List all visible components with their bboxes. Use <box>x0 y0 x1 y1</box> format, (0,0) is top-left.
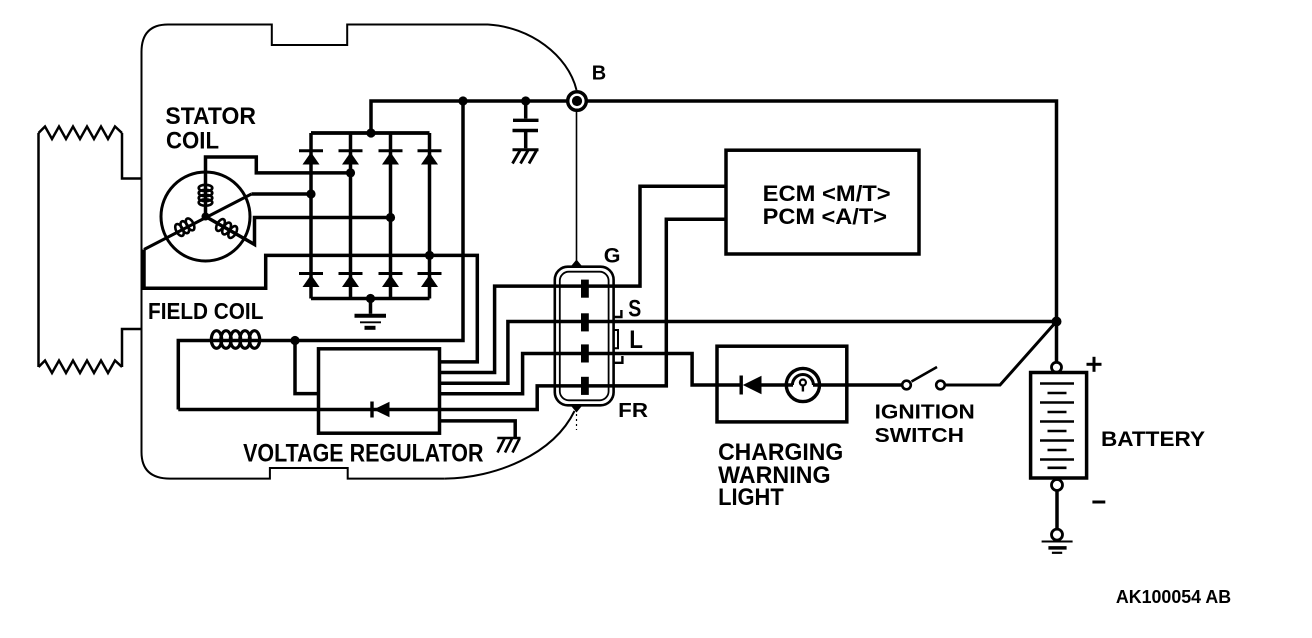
stator neutral wire to column 4 <box>144 250 477 362</box>
rectifier column 2 <box>349 133 353 299</box>
voltage regulator box <box>319 349 440 433</box>
belt bottom zigzag <box>39 361 123 374</box>
diode D7 bottom <box>379 274 403 288</box>
regulator diode <box>372 402 390 418</box>
svg-text:STATOR: STATOR <box>165 103 256 130</box>
ground circle <box>1052 529 1063 540</box>
main B+ wire from rectifier top to top-right corner down to battery <box>371 101 1057 363</box>
field supply wire from B+ down and left to regulator loop <box>178 101 463 410</box>
stator phase wire 2 (diagonal to column 1) <box>251 192 311 196</box>
lamp bulb <box>786 368 819 401</box>
wire diode to lamp <box>762 383 794 387</box>
stator coil circle <box>161 172 250 261</box>
battery terminal circle top <box>1052 362 1062 372</box>
junction dot field tap <box>290 336 299 345</box>
junction dot neutral col4 <box>425 251 434 260</box>
svg-text:L: L <box>629 326 643 354</box>
alternator case outline <box>142 25 577 479</box>
capacitor C1 <box>513 101 539 148</box>
svg-text:G: G <box>604 244 621 268</box>
junction dot rectifier top <box>366 128 375 137</box>
stator phase wire 1 (top branch to column 2) <box>206 157 351 217</box>
diode D1 top <box>299 151 323 165</box>
svg-text:COIL: COIL <box>166 128 219 155</box>
warning light diode <box>741 376 761 395</box>
stator diagonal (neutral tap through center) <box>144 194 251 250</box>
stator center node <box>202 213 210 221</box>
B terminal <box>568 92 587 111</box>
connector pin FR <box>581 377 589 395</box>
svg-text:IGNITION: IGNITION <box>875 401 975 423</box>
dotted case remnant below connector <box>576 414 578 430</box>
diode D8 bottom <box>418 274 442 288</box>
rectifier column 1 <box>309 133 313 299</box>
connector pin G <box>581 280 589 298</box>
junction dot phase3 col3 <box>386 213 395 222</box>
connector latch tab upper <box>614 310 622 317</box>
svg-text:ECM <M/T>: ECM <M/T> <box>763 181 891 206</box>
regulator ground hatch <box>497 438 520 453</box>
wire L: regulator to connector pin3 to warning light <box>440 354 742 394</box>
svg-text:B: B <box>592 62 606 84</box>
svg-text:FR: FR <box>618 400 648 422</box>
battery minus sign <box>1092 501 1105 504</box>
connector pin S <box>581 313 589 331</box>
rectifier column 4 <box>428 133 432 299</box>
svg-text:LIGHT: LIGHT <box>718 484 784 511</box>
case tip triangle bottom of connector <box>571 405 583 412</box>
wire field tap to regulator top <box>295 341 319 394</box>
diode D5 bottom <box>299 274 323 288</box>
junction dot rectifier ground <box>366 294 375 303</box>
rectifier ground <box>355 299 387 328</box>
wire lamp to switch <box>813 383 902 387</box>
stator winding coil on lower-left branch <box>173 217 196 237</box>
wire S: regulator to connector pin2 to battery node <box>440 322 1057 384</box>
stator phase wire 3 (lower-right branch to column 3) <box>206 217 391 245</box>
svg-text:S: S <box>628 296 641 323</box>
svg-text:SWITCH: SWITCH <box>875 425 964 447</box>
battery terminal circle bottom <box>1052 480 1063 491</box>
ignition switch <box>902 367 945 389</box>
svg-text:BATTERY: BATTERY <box>1101 428 1205 451</box>
stator winding coil on lower-right branch <box>214 218 239 240</box>
diode D3 top <box>379 151 403 165</box>
regulator diode line through box to FR and ECM <box>178 219 726 409</box>
junction dot phase1 col2 <box>346 168 355 177</box>
case tip triangle top of connector <box>571 260 583 267</box>
rectifier bottom bus <box>311 297 430 301</box>
diode D6 bottom <box>339 274 363 288</box>
diode D2 top <box>339 151 363 165</box>
junction dot B+ x463 <box>458 96 467 105</box>
wire G: regulator to connector pin1 to ECM <box>440 186 727 372</box>
connector latch tab lower <box>614 356 623 363</box>
junction dot capacitor tap <box>521 96 530 105</box>
svg-text:PCM <A/T>: PCM <A/T> <box>763 204 887 229</box>
regulator ground wire <box>440 421 516 438</box>
belt top zigzag <box>39 127 123 140</box>
capacitor ground <box>513 150 539 164</box>
junction node battery sense <box>1052 317 1062 327</box>
rectifier top bus <box>311 131 430 135</box>
battery plus sign <box>1087 357 1102 372</box>
connector pin L <box>581 344 589 362</box>
battery plates <box>1040 384 1074 468</box>
wire switch to battery node <box>945 323 1056 386</box>
connector body inner <box>560 272 609 401</box>
wire battery to ground <box>1055 491 1059 530</box>
diode D4 top <box>418 151 442 165</box>
battery ground bars <box>1042 542 1073 553</box>
battery box <box>1031 373 1087 479</box>
svg-text:AK100054 AB: AK100054 AB <box>1116 586 1231 607</box>
belt bottom stub to case <box>122 329 142 367</box>
junction dot phase2 col1 <box>306 189 315 198</box>
alternator case edge through connector (thin) <box>576 111 578 262</box>
svg-text:FIELD COIL: FIELD COIL <box>148 298 263 324</box>
connector body outer <box>555 267 614 406</box>
rectifier column 3 <box>389 133 393 299</box>
field coil inductor <box>211 331 259 349</box>
svg-text:VOLTAGE REGULATOR: VOLTAGE REGULATOR <box>243 439 483 467</box>
connector side bump <box>614 330 618 348</box>
stator winding coil on top branch <box>199 185 213 206</box>
belt top stub to case <box>122 133 142 179</box>
charging warning light box <box>717 346 847 422</box>
ECM box <box>726 150 919 254</box>
pulley belt left side <box>37 133 40 367</box>
